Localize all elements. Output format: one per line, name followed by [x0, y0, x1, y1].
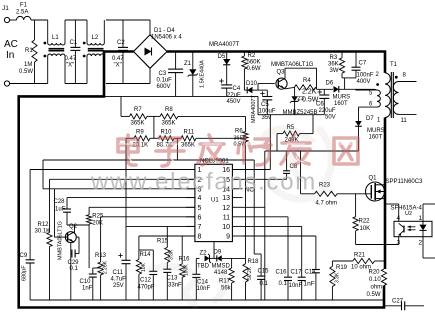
- svg-text:R14: R14: [140, 252, 152, 258]
- svg-text:R10: R10: [161, 130, 173, 136]
- svg-text:600V: 600V: [157, 84, 171, 90]
- wire divider feed: [120, 96, 122, 116]
- resistor R4: [294, 78, 318, 104]
- svg-text:Q3: Q3: [277, 70, 286, 76]
- wire opto pin4: [384, 204, 399, 221]
- svg-text:10nF: 10nF: [197, 286, 211, 292]
- text AC In: [4, 39, 18, 61]
- svg-text:10: 10: [222, 224, 230, 231]
- svg-text:R8: R8: [165, 107, 173, 113]
- svg-text:11: 11: [223, 214, 230, 221]
- svg-text:R11: R11: [184, 130, 195, 136]
- svg-text:3W: 3W: [330, 68, 339, 74]
- resistor R2: [242, 52, 261, 91]
- capacitor C14: [192, 258, 210, 300]
- svg-text:D9: D9: [214, 250, 222, 256]
- capacitor C3: [157, 52, 184, 97]
- capacitor C9: [20, 170, 35, 301]
- zener Z2: [196, 251, 211, 270]
- resistor R3: [328, 52, 345, 78]
- resistor R18: [243, 258, 259, 300]
- svg-text:R13: R13: [95, 253, 107, 259]
- wire base feed: [54, 189, 56, 237]
- wire Q3 collector: [285, 68, 317, 89]
- wire Q3 emitter: [285, 87, 294, 88]
- svg-text:C17: C17: [291, 270, 303, 276]
- capacitor C13: [163, 262, 182, 300]
- svg-text:C10: C10: [80, 279, 92, 285]
- svg-text:0.6W: 0.6W: [247, 66, 261, 72]
- wire snubber bottom: [342, 78, 356, 89]
- wire R5 left drop: [276, 134, 278, 151]
- svg-text:160T: 160T: [334, 101, 348, 107]
- svg-text:F1: F1: [20, 3, 28, 9]
- svg-text:MRA4007T: MRA4007T: [251, 95, 257, 123]
- svg-text:Z3: Z3: [298, 96, 304, 102]
- transformer T1 core: [391, 72, 393, 118]
- resistor R15: [157, 226, 175, 262]
- resistor R8: [160, 107, 246, 127]
- wire opto pin3: [398, 237, 400, 245]
- svg-text:R7: R7: [134, 107, 142, 113]
- svg-text:R2: R2: [248, 53, 256, 59]
- svg-text:R22: R22: [359, 219, 371, 225]
- svg-text:R15: R15: [157, 239, 169, 245]
- resistor R6: [234, 116, 249, 147]
- svg-text:10nF: 10nF: [289, 283, 303, 289]
- capacitor C7: [352, 52, 374, 86]
- svg-text:10K: 10K: [141, 262, 147, 272]
- svg-text:R25: R25: [92, 214, 104, 220]
- svg-text:C3: C3: [159, 71, 167, 77]
- capacitor C5: [259, 90, 276, 121]
- svg-text:Z2: Z2: [200, 251, 208, 257]
- svg-text:R6: R6: [235, 129, 243, 135]
- resistor R21: [332, 253, 384, 271]
- capacitor C8: [283, 151, 298, 179]
- svg-text:365K: 365K: [181, 143, 195, 149]
- svg-text:R21: R21: [354, 253, 366, 259]
- svg-text:Z1: Z1: [184, 61, 192, 67]
- resistor R10: [157, 130, 182, 149]
- capacitor C10: [80, 268, 101, 300]
- resistor R16: [179, 236, 191, 300]
- wire thick DC+ bus: [167, 52, 385, 73]
- svg-text:D7: D7: [366, 116, 374, 122]
- resistor R20: [367, 269, 387, 298]
- svg-text:R1: R1: [25, 48, 33, 54]
- svg-text:L2: L2: [92, 35, 99, 41]
- capacitor C15: [257, 254, 269, 300]
- svg-text:1nF: 1nF: [82, 286, 93, 292]
- wire pin11 line: [243, 217, 289, 277]
- wire pin10 line: [243, 226, 302, 277]
- resistor R1: [19, 20, 37, 84]
- wire V254: [254, 160, 261, 254]
- svg-text:100nF: 100nF: [357, 73, 374, 79]
- resistor R13: [95, 217, 109, 300]
- svg-text:R9: R9: [136, 130, 144, 136]
- svg-text:3.3K: 3.3K: [169, 249, 175, 260]
- svg-text:C18: C18: [305, 270, 317, 276]
- svg-text:U2: U2: [405, 211, 412, 217]
- wire thick drain-source rail: [384, 118, 387, 270]
- svg-text:4.7 ohm: 4.7 ohm: [316, 201, 338, 207]
- wire pin2 line: [50, 178, 195, 180]
- diode D10: [244, 81, 258, 123]
- wire pin6 line: [101, 216, 195, 218]
- label NC pin14: [245, 186, 255, 193]
- optocoupler U2: [391, 206, 433, 247]
- diode D5: [218, 52, 231, 85]
- resistor R12: [35, 179, 53, 300]
- svg-text:160T: 160T: [369, 135, 383, 141]
- capacitor C28: [54, 198, 72, 225]
- wire opto pin2: [423, 237, 435, 258]
- svg-text:6: 6: [198, 214, 202, 221]
- svg-text:C6: C6: [316, 102, 324, 108]
- svg-text:MMBTA06LT1G: MMBTA06LT1G: [58, 221, 64, 260]
- svg-text:36K: 36K: [328, 62, 339, 68]
- bridge rectifier D1-D4: [134, 28, 183, 68]
- svg-text:4.7uF: 4.7uF: [111, 277, 127, 283]
- resistor R22: [353, 194, 370, 245]
- capacitor C18: [304, 270, 320, 301]
- transformer T1 secondary: [393, 73, 416, 125]
- watermark red characters: [118, 135, 358, 166]
- svg-text:400V: 400V: [357, 79, 371, 85]
- capacitor C2: [112, 20, 128, 84]
- IC U1 pin numbers: [198, 167, 231, 241]
- svg-text:4: 4: [198, 195, 202, 202]
- svg-text:C7: C7: [359, 61, 367, 67]
- capacitor C27: [384, 299, 424, 311]
- svg-text:25V: 25V: [113, 283, 124, 289]
- svg-text:7: 7: [198, 224, 202, 231]
- wire pin8 line: [139, 235, 195, 237]
- svg-text:R18: R18: [248, 259, 260, 265]
- capacitor C29: [68, 237, 80, 272]
- svg-text:2.5A: 2.5A: [16, 10, 28, 16]
- svg-text:R3: R3: [330, 55, 338, 61]
- svg-text:D6: D6: [326, 81, 334, 87]
- svg-text:C16: C16: [276, 270, 288, 276]
- capacitor C4: [219, 79, 241, 105]
- svg-text:R19: R19: [336, 265, 348, 271]
- capacitor C17: [289, 270, 306, 301]
- svg-text:R12: R12: [38, 222, 50, 228]
- resistor R9: [126, 130, 159, 149]
- svg-text:C11: C11: [113, 270, 124, 276]
- svg-text:100uF: 100uF: [259, 109, 276, 115]
- svg-text:365K: 365K: [131, 121, 145, 127]
- resistor R14: [136, 236, 151, 300]
- svg-text:MRA4007T: MRA4007T: [209, 42, 240, 48]
- svg-text:2.26K: 2.26K: [103, 260, 109, 274]
- zener Z3: [283, 87, 318, 115]
- svg-text:R20: R20: [369, 270, 381, 276]
- resistor R11: [181, 130, 246, 149]
- svg-text:11: 11: [401, 118, 408, 124]
- svg-text:2.2K: 2.2K: [302, 89, 317, 96]
- wire aux to D6: [375, 88, 377, 91]
- svg-text:0.47: 0.47: [112, 56, 124, 62]
- svg-text:0.1: 0.1: [70, 266, 79, 272]
- wire D10 to base node: [258, 84, 267, 91]
- transistor Q3: [271, 62, 314, 89]
- svg-text:33nF: 33nF: [168, 283, 182, 289]
- wire Q3 base: [258, 83, 275, 85]
- IC U1 pin stubs: [186, 170, 243, 237]
- svg-text:C2: C2: [117, 40, 125, 46]
- wire signal ground rail: [30, 299, 384, 301]
- svg-text:56.2K: 56.2K: [247, 266, 253, 280]
- svg-text:0.5W: 0.5W: [367, 292, 381, 298]
- svg-text:C4: C4: [233, 86, 241, 92]
- svg-text:0.1: 0.1: [279, 281, 288, 287]
- transformer T1 aux winding: [356, 90, 381, 108]
- wire top rail: [31, 20, 150, 35]
- svg-text:1uF: 1uF: [55, 207, 66, 213]
- svg-text:Q1: Q1: [369, 176, 378, 182]
- svg-text:AC: AC: [4, 39, 18, 50]
- choke L2: [83, 20, 105, 84]
- svg-text:450V: 450V: [227, 99, 241, 105]
- svg-text:1nF: 1nF: [304, 281, 315, 288]
- wire pin9 line: [243, 236, 316, 270]
- wire pin5 line: [89, 206, 195, 208]
- diode D9: [210, 250, 246, 277]
- svg-text:20K: 20K: [92, 221, 103, 227]
- wire pin7 line: [126, 225, 195, 227]
- wire R23 feed: [301, 151, 315, 194]
- svg-text:470pF: 470pF: [138, 285, 155, 291]
- wire Q2 emitter: [70, 243, 72, 300]
- capacitor C1: [65, 20, 81, 84]
- wire Z2 D9 junction: [213, 242, 215, 259]
- transistor Q2: [55, 221, 78, 260]
- svg-text:22uF: 22uF: [227, 93, 241, 99]
- svg-text:C9: C9: [20, 253, 28, 259]
- wire bias bottom rail: [258, 96, 324, 114]
- svg-text:J1: J1: [2, 5, 9, 12]
- fuse F1: [10, 3, 31, 21]
- wire thick DC- loop: [19, 52, 384, 308]
- wire row2 left drop: [125, 138, 127, 260]
- wire pin1 line: [30, 169, 195, 171]
- diode D6: [317, 81, 375, 108]
- svg-text:9: 9: [226, 234, 230, 241]
- capacitor C12: [138, 250, 158, 300]
- svg-text:C12: C12: [140, 278, 152, 284]
- capacitor C16: [276, 270, 293, 301]
- wire bottom rail: [10, 68, 150, 83]
- svg-text:ohm: ohm: [371, 285, 383, 291]
- svg-text:12: 12: [222, 205, 230, 212]
- wire R6 column: [245, 142, 247, 259]
- svg-text:R4: R4: [303, 78, 311, 84]
- wire row link: [153, 116, 155, 138]
- wire H2 line: [43, 160, 254, 189]
- resistor R7: [121, 107, 160, 127]
- svg-text:C5: C5: [261, 102, 269, 108]
- svg-text:560K: 560K: [247, 60, 261, 66]
- wire opto pin1: [423, 204, 435, 221]
- svg-text:In: In: [6, 50, 14, 61]
- diode D7: [355, 107, 384, 151]
- TVS Z1: [184, 52, 206, 97]
- capacitor C11: [111, 253, 131, 300]
- resistor R5: [277, 125, 313, 144]
- svg-text:0.1: 0.1: [260, 281, 269, 287]
- svg-text:2: 2: [419, 240, 423, 247]
- wire source node: [356, 244, 399, 246]
- svg-text:"X": "X": [114, 63, 122, 69]
- resistor R25: [87, 207, 104, 226]
- wire pin12 line: [243, 151, 265, 300]
- wire pin3 line: [43, 188, 195, 190]
- svg-text:680pF: 680pF: [22, 265, 28, 281]
- svg-text:1.5KE440A: 1.5KE440A: [200, 60, 206, 88]
- svg-text:C13: C13: [167, 276, 179, 282]
- svg-text:220uF: 220uF: [319, 108, 336, 114]
- capacitor C6: [316, 89, 336, 120]
- svg-text:R16: R16: [179, 257, 191, 263]
- svg-text:5: 5: [198, 205, 202, 212]
- wire Q2 collector: [67, 225, 89, 268]
- svg-text:SPP11N60C3: SPP11N60C3: [386, 179, 424, 185]
- svg-text:TBD: TBD: [197, 264, 210, 270]
- svg-text:MURS: MURS: [367, 128, 385, 134]
- svg-text:C28: C28: [54, 199, 66, 205]
- svg-text:1M: 1M: [24, 62, 32, 68]
- resistor R23: [315, 183, 372, 207]
- svg-text:365K: 365K: [162, 121, 176, 127]
- watermark url text: [90, 169, 317, 196]
- resistor R19: [330, 261, 348, 300]
- svg-text:1N5406 x 4: 1N5406 x 4: [151, 35, 182, 41]
- wire R5 right to bias rail: [312, 115, 314, 134]
- svg-text:0.1uF: 0.1uF: [157, 78, 173, 84]
- svg-text:"X": "X": [66, 63, 74, 69]
- connector J1: [2, 5, 10, 86]
- wire pin15 line: [243, 178, 287, 180]
- svg-text:C27: C27: [392, 299, 404, 305]
- svg-text:D10: D10: [246, 81, 258, 87]
- label MRA4007T: [209, 42, 240, 48]
- watermark faint tile: [150, 129, 331, 305]
- svg-text:D1 - D4: D1 - D4: [154, 28, 175, 34]
- IC U1 NCL30001: [195, 159, 233, 242]
- svg-text:30.1K: 30.1K: [35, 229, 51, 235]
- svg-text:1: 1: [419, 215, 423, 222]
- svg-text:U1: U1: [211, 198, 219, 204]
- wire demag line: [265, 150, 359, 152]
- svg-text:8: 8: [198, 234, 202, 241]
- svg-text:D5: D5: [218, 54, 226, 60]
- resistor R17: [219, 258, 234, 300]
- transformer T1 primary: [376, 62, 398, 124]
- svg-text:10K: 10K: [360, 226, 371, 232]
- svg-text:C1: C1: [70, 40, 78, 46]
- svg-text:3.3K: 3.3K: [335, 272, 341, 283]
- wire row23 link: [176, 138, 178, 160]
- svg-text:0.5W: 0.5W: [19, 69, 33, 75]
- svg-text:MURS: MURS: [333, 95, 351, 101]
- MOSFET Q1: [366, 176, 424, 202]
- svg-text:L1: L1: [52, 35, 59, 41]
- svg-text:50V: 50V: [325, 115, 336, 121]
- svg-text:C15: C15: [258, 269, 270, 275]
- svg-text:0.10: 0.10: [369, 277, 381, 283]
- choke L1: [44, 20, 66, 84]
- svg-text:0.47: 0.47: [65, 56, 77, 62]
- wire Vcc drop pin16: [232, 115, 270, 170]
- svg-text:T1: T1: [390, 62, 398, 68]
- wire pin4 line: [67, 197, 195, 199]
- svg-text:MMBTA06LT1G: MMBTA06LT1G: [271, 62, 314, 68]
- svg-text:13: 13: [222, 195, 230, 202]
- svg-text:35v: 35v: [262, 115, 272, 121]
- wire DC- rail: [104, 95, 258, 97]
